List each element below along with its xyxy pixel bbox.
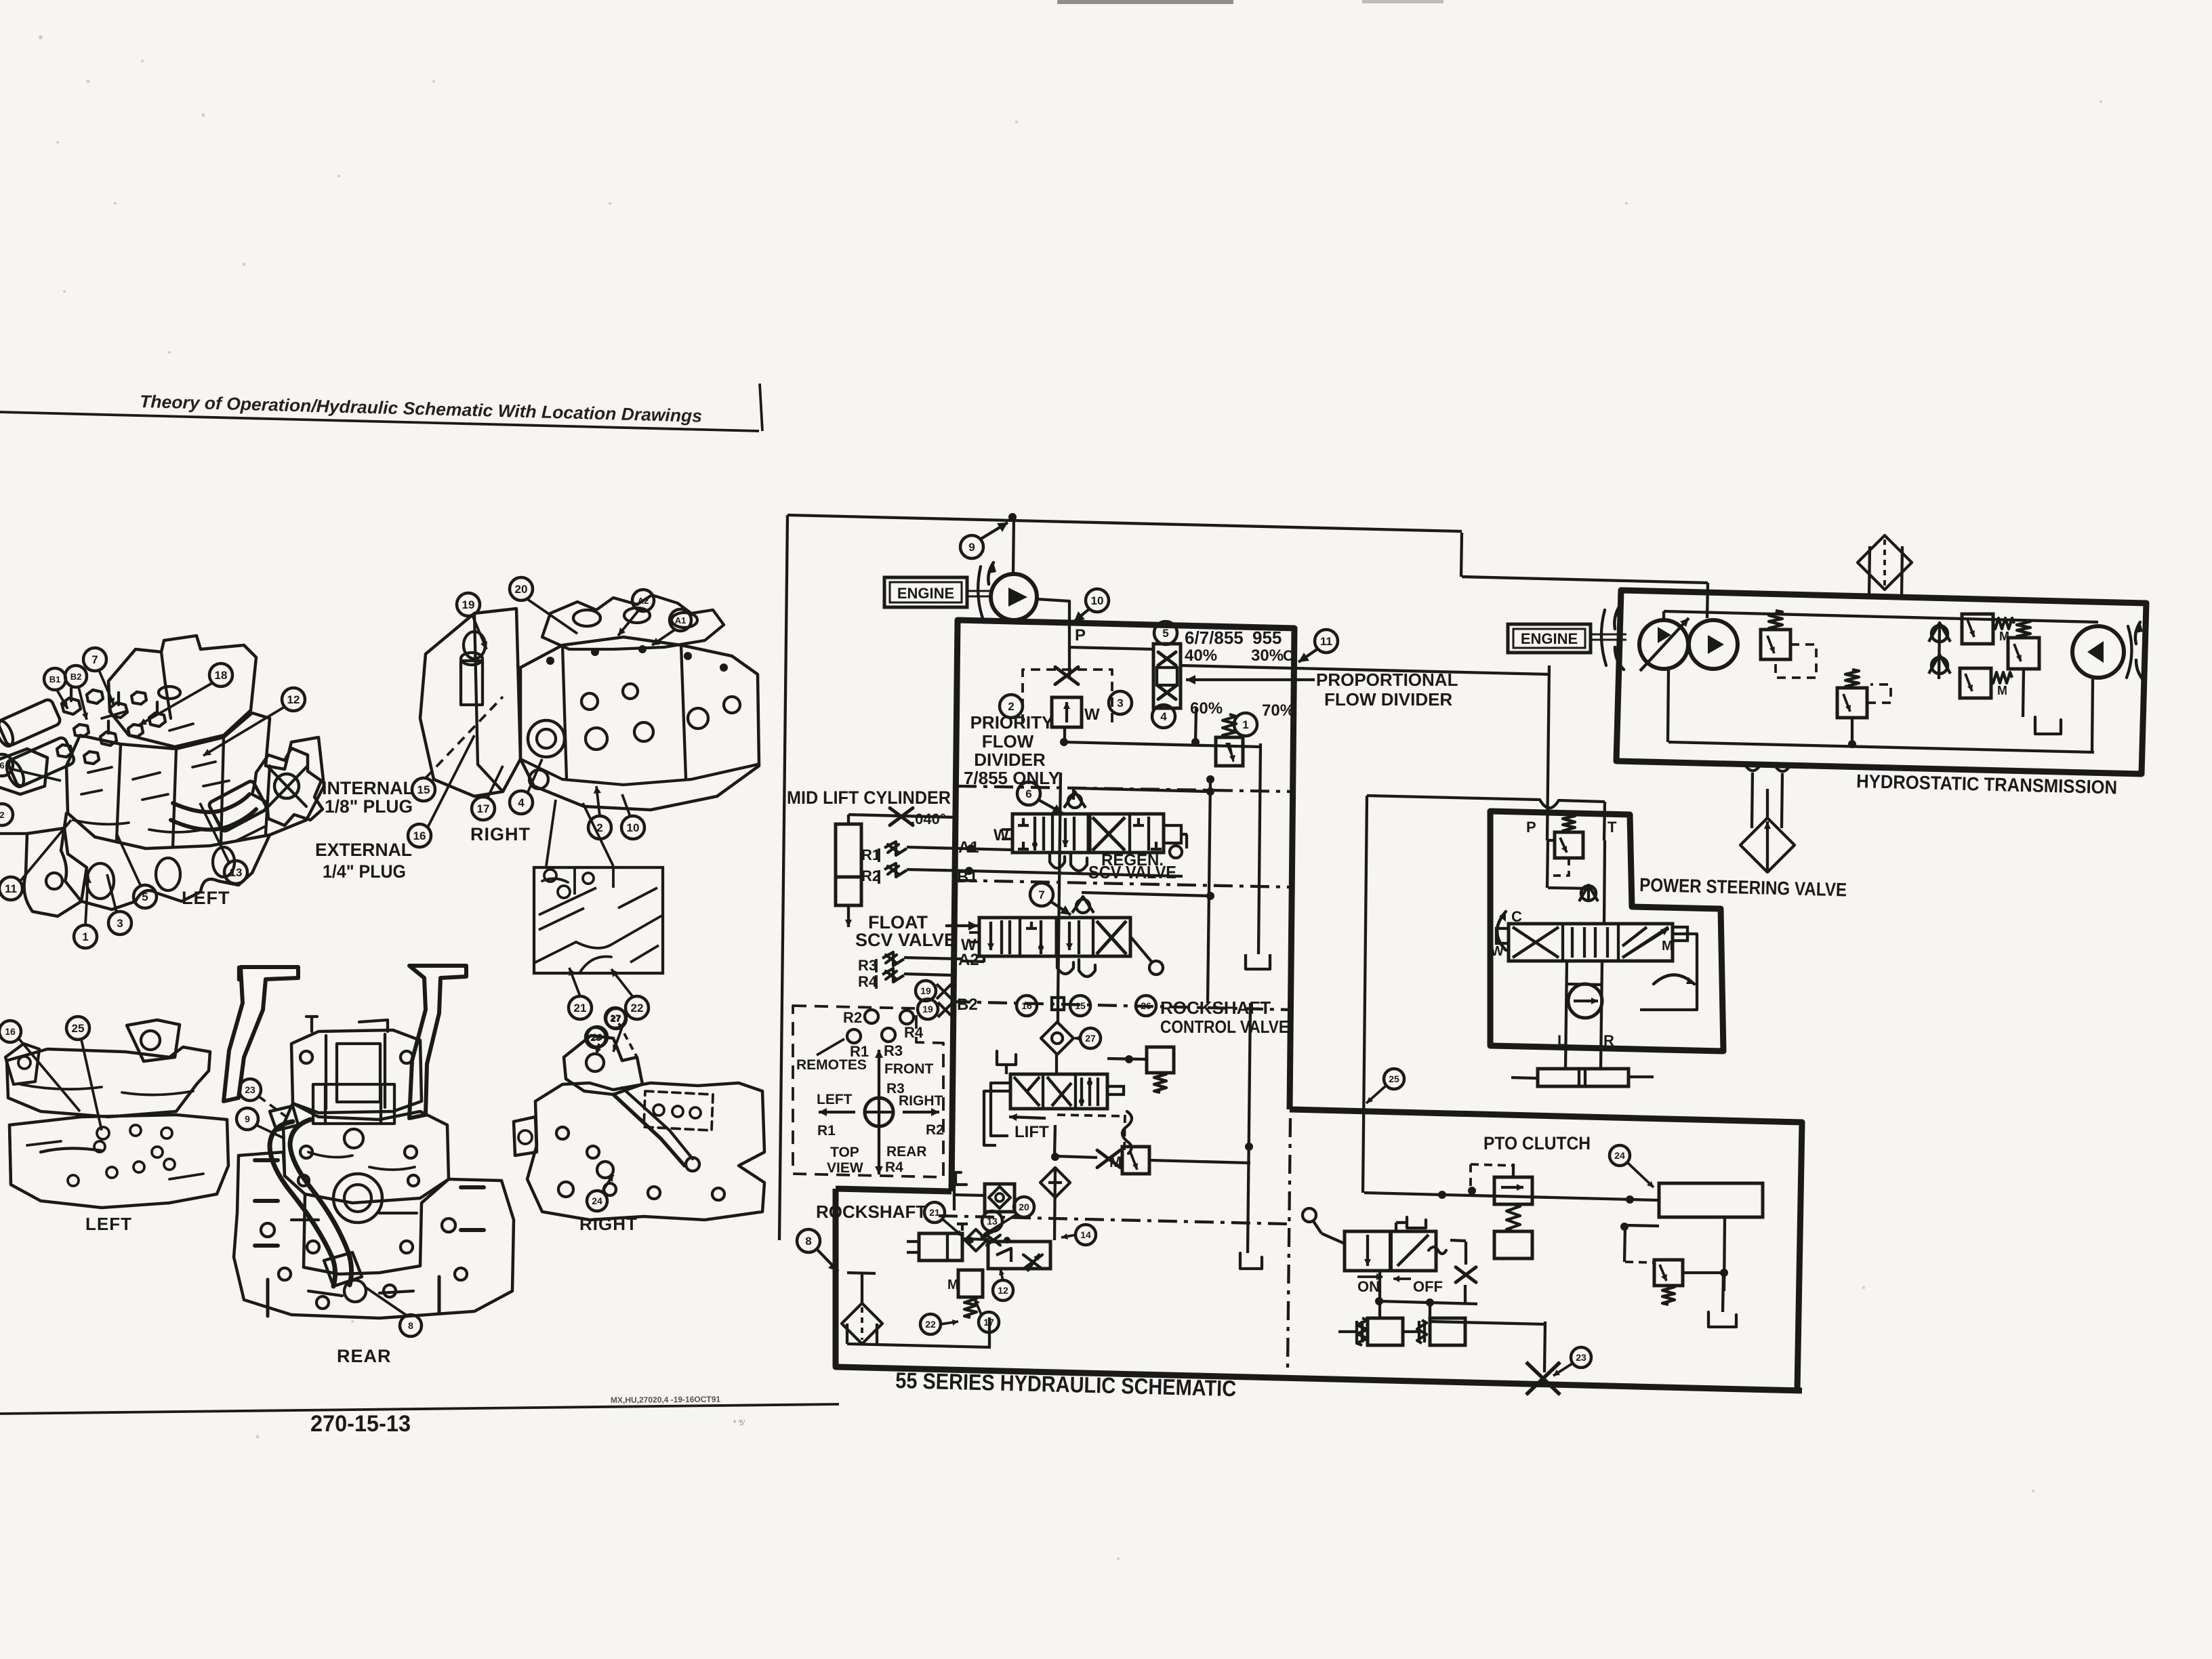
svg-text:2: 2 xyxy=(0,810,5,820)
steering cylinder xyxy=(1538,1069,1629,1086)
charge pump circle xyxy=(1689,620,1738,669)
check diamond on P line xyxy=(1041,1022,1073,1054)
bottom filter diamond xyxy=(1740,818,1795,872)
R1 check valve xyxy=(884,842,907,855)
section divider dash-dot y1800 (rockshaft) xyxy=(939,1216,1288,1224)
tank hook small left xyxy=(956,1172,966,1185)
svg-text:16: 16 xyxy=(5,1026,16,1037)
svg-text:DIVIDER: DIVIDER xyxy=(974,750,1046,770)
svg-text:1: 1 xyxy=(82,930,88,943)
svg-text:70%: 70% xyxy=(1262,701,1294,720)
steering motor circle xyxy=(1568,984,1602,1018)
callout 1 xyxy=(1234,713,1257,736)
svg-text:C: C xyxy=(1511,908,1522,925)
small box on divider xyxy=(1052,998,1064,1010)
svg-text:OFF: OFF xyxy=(1413,1278,1443,1295)
inset leader lines xyxy=(546,800,556,866)
regen valve section innards xyxy=(1022,818,1025,825)
svg-text:5: 5 xyxy=(142,890,148,903)
svg-text:1/4" PLUG: 1/4" PLUG xyxy=(323,861,406,882)
callout 7 + check xyxy=(1030,883,1053,906)
orifice on P line xyxy=(1055,667,1078,684)
priority flow divider valve xyxy=(1052,697,1082,727)
svg-text:CONTROL VALVE: CONTROL VALVE xyxy=(1160,1017,1289,1037)
bottom loop bumps + filter xyxy=(1744,764,1761,771)
callout 11 xyxy=(1315,630,1338,653)
relief valve 1 xyxy=(1216,737,1243,766)
LIFT label + arrow xyxy=(1009,1117,1046,1118)
svg-text:R3: R3 xyxy=(858,957,877,974)
callouts upper-left assembly xyxy=(44,668,66,690)
R4 line xyxy=(904,974,952,975)
tank below relief xyxy=(1246,954,1270,969)
svg-text:ENGINE: ENGINE xyxy=(897,585,954,602)
svg-text:20: 20 xyxy=(515,583,528,596)
callout 27 xyxy=(1080,1028,1101,1048)
svg-text:P: P xyxy=(1526,819,1536,836)
hi-pressure relief B xyxy=(1960,668,1991,698)
R3 line xyxy=(904,958,962,959)
svg-text:SCV VALVE: SCV VALVE xyxy=(1088,862,1176,882)
P bus through divider xyxy=(1057,1003,1059,1023)
solenoid box 2 xyxy=(1430,1318,1465,1345)
callout 8 xyxy=(797,1229,820,1252)
svg-text:P: P xyxy=(1075,626,1086,644)
svg-text:A1: A1 xyxy=(675,615,687,626)
tank hook left of lift valve xyxy=(997,1051,1016,1065)
svg-text:7: 7 xyxy=(91,653,98,666)
svg-text:LEFT: LEFT xyxy=(817,1092,853,1107)
svg-text:ON: ON xyxy=(1357,1278,1380,1295)
svg-text:M: M xyxy=(1109,1153,1122,1170)
svg-text:23: 23 xyxy=(245,1084,255,1095)
right return loop xyxy=(1640,934,1697,1010)
scanner top edge xyxy=(1057,0,1233,4)
svg-text:M: M xyxy=(947,1277,959,1292)
svg-text:PRIORITY: PRIORITY xyxy=(970,712,1054,733)
svg-text:MID LIFT CYLINDER: MID LIFT CYLINDER xyxy=(787,787,951,808)
svg-text:21: 21 xyxy=(574,1002,587,1015)
float valve lever xyxy=(1130,937,1152,962)
clutch cylinder rect xyxy=(1659,1183,1763,1217)
valve end stubs xyxy=(1496,928,1509,943)
svg-text:27: 27 xyxy=(611,1013,621,1024)
svg-text:EXTERNAL: EXTERNAL xyxy=(315,840,412,860)
svg-text:.040°: .040° xyxy=(911,811,946,827)
70% output down xyxy=(1195,708,1196,742)
svg-text:10: 10 xyxy=(627,821,640,834)
R2 line to B1 xyxy=(907,869,969,871)
svg-text:18: 18 xyxy=(215,669,228,682)
svg-text:REAR: REAR xyxy=(337,1346,392,1366)
pto main line xyxy=(1364,1193,1659,1200)
svg-text:R1: R1 xyxy=(861,846,880,863)
M relief valve xyxy=(1122,1147,1149,1174)
svg-text:13: 13 xyxy=(230,866,243,879)
hydrostatic thick box xyxy=(1616,590,2146,774)
svg-text:R: R xyxy=(1603,1032,1614,1049)
svg-text:5: 5 xyxy=(1162,627,1168,640)
svg-text:FLOW: FLOW xyxy=(982,731,1034,752)
PS check valve xyxy=(1581,886,1596,901)
40% output to power steering xyxy=(1181,665,1549,674)
pto 3way valve xyxy=(1345,1231,1436,1271)
svg-text:10: 10 xyxy=(1091,594,1104,607)
svg-text:6/7/855: 6/7/855 xyxy=(1185,628,1244,648)
remotes circles row2 xyxy=(847,1029,861,1043)
variable pump circle xyxy=(1639,620,1688,669)
relief output down to tank xyxy=(1258,743,1261,954)
main schematic thick border xyxy=(951,620,1294,1191)
A2 line from valve xyxy=(983,956,985,962)
svg-text:24: 24 xyxy=(592,1195,602,1206)
callout 6 + check xyxy=(1017,782,1040,805)
charge relief dashed pilot xyxy=(1776,644,1816,678)
svg-text:19: 19 xyxy=(922,1004,933,1015)
svg-text:REMOTES: REMOTES xyxy=(796,1057,867,1073)
lower distribution line xyxy=(1379,1301,1477,1304)
svg-text:VIEW: VIEW xyxy=(827,1160,863,1176)
svg-text:ROCKSHAFT: ROCKSHAFT xyxy=(816,1202,926,1222)
svg-text:955: 955 xyxy=(1252,628,1282,648)
hydro inner loop top xyxy=(1664,611,2098,622)
svg-text:PTO CLUTCH: PTO CLUTCH xyxy=(1483,1133,1591,1153)
callout 16 15 26 on divider xyxy=(1017,996,1037,1016)
engine box 2 xyxy=(1508,624,1591,653)
svg-text:16: 16 xyxy=(1021,1000,1032,1011)
svg-text:W: W xyxy=(1084,705,1100,724)
priority valve drop line xyxy=(1063,727,1066,743)
tank hook above valve xyxy=(1407,1217,1426,1228)
top filter diamond xyxy=(1858,535,1912,590)
svg-text:15: 15 xyxy=(1075,1000,1086,1011)
PTO left dash-dot boundary xyxy=(1288,1118,1290,1368)
tank gallery below regen xyxy=(1050,853,1065,868)
svg-text:R2: R2 xyxy=(926,1122,944,1138)
svg-text:RIGHT: RIGHT xyxy=(470,824,531,844)
svg-text:3: 3 xyxy=(1117,697,1123,710)
remotes crosshair xyxy=(878,1050,880,1098)
svg-text:ROCKSHAFT: ROCKSHAFT xyxy=(1160,998,1271,1018)
svg-text:1: 1 xyxy=(1242,718,1248,731)
solenoid box 1 xyxy=(1368,1318,1403,1345)
engine box 1 xyxy=(884,577,967,607)
float SCV valve block xyxy=(979,918,1130,956)
svg-text:14: 14 xyxy=(1080,1229,1091,1240)
motor shaft arcs xyxy=(2127,626,2132,678)
svg-text:R4: R4 xyxy=(885,1160,903,1175)
svg-text:A2: A2 xyxy=(638,596,649,606)
callout 19 x2 with X marks xyxy=(916,981,936,1001)
svg-text:25: 25 xyxy=(72,1022,85,1035)
svg-text:26: 26 xyxy=(1141,1000,1151,1011)
motor circle xyxy=(2072,626,2124,678)
svg-text:R2: R2 xyxy=(861,867,880,884)
svg-text:8: 8 xyxy=(408,1320,413,1331)
svg-text:20: 20 xyxy=(1019,1202,1029,1212)
regulator valve (two squares + spring) xyxy=(1494,1177,1532,1204)
hydro inner loop bottom xyxy=(1668,742,2094,752)
edge half callouts xyxy=(0,754,13,776)
svg-text:13: 13 xyxy=(987,1216,998,1227)
callouts lower-right xyxy=(587,1027,607,1047)
charge relief square xyxy=(1761,630,1790,659)
svg-text:9: 9 xyxy=(968,541,975,554)
svg-text:23: 23 xyxy=(1576,1352,1586,1363)
callout 21 xyxy=(924,1202,945,1223)
svg-text:T: T xyxy=(1607,819,1617,836)
power steering thick border xyxy=(1490,811,1723,1051)
R2 check valve xyxy=(884,863,907,877)
dashed pilot from lift valve xyxy=(1057,1115,1125,1116)
callout 2 xyxy=(1000,695,1023,718)
svg-text:INTERNAL: INTERNAL xyxy=(322,778,414,798)
valve riser xyxy=(1378,1271,1381,1301)
svg-text:30%: 30% xyxy=(1251,647,1284,665)
svg-text:4: 4 xyxy=(518,796,525,809)
header rule right tick xyxy=(760,384,762,431)
callout 25 xyxy=(1384,1069,1404,1089)
line to X port xyxy=(1429,1303,1431,1322)
relief top right of lift xyxy=(1147,1047,1174,1073)
callout 14 xyxy=(1076,1225,1096,1245)
rockshaft cylinder xyxy=(919,1233,962,1261)
relief drain to tank xyxy=(2023,669,2024,717)
engine1 rotation arcs xyxy=(978,567,983,618)
svg-text:W: W xyxy=(1491,944,1504,959)
float top bridge xyxy=(1082,893,1210,896)
svg-text:TOP: TOP xyxy=(830,1145,859,1160)
svg-text:RIGHT: RIGHT xyxy=(899,1093,943,1109)
section divider dash-dot y1150 xyxy=(958,786,1292,792)
steering valve block xyxy=(1509,924,1673,961)
svg-text:8: 8 xyxy=(805,1235,811,1248)
svg-text:LEFT: LEFT xyxy=(85,1214,132,1234)
B1 line right xyxy=(969,871,1183,876)
svg-text:7/855 ONLY: 7/855 ONLY xyxy=(964,768,1060,788)
cylinder rod arrow xyxy=(847,905,850,927)
svg-text:ENGINE: ENGINE xyxy=(1521,630,1578,647)
svg-text:17: 17 xyxy=(477,802,490,815)
svg-text:11: 11 xyxy=(5,882,17,895)
PS supply drop x2286 xyxy=(1547,665,1549,840)
callouts upper-right assembly xyxy=(457,593,480,616)
svg-text:SCV VALVE: SCV VALVE xyxy=(855,930,956,950)
engine2 shaft + arcs xyxy=(1591,634,1626,636)
orifice .040 xyxy=(890,808,913,825)
svg-text:6: 6 xyxy=(0,760,5,771)
svg-text:* '5': * '5' xyxy=(733,1419,745,1427)
callout 24 xyxy=(1610,1145,1630,1166)
callouts REAR xyxy=(239,1079,261,1101)
T drop xyxy=(1604,802,1605,840)
P bus continues through xyxy=(1058,773,1061,1003)
mid lift cylinder body xyxy=(836,824,861,877)
svg-text:4: 4 xyxy=(1160,710,1167,723)
callout 23 xyxy=(1571,1347,1591,1368)
regen top bridge line xyxy=(1073,788,1210,792)
section divider dash-dot y1297 xyxy=(958,880,1292,887)
svg-text:B2: B2 xyxy=(70,672,82,682)
svg-text:R2: R2 xyxy=(843,1009,862,1026)
remotes dashed box xyxy=(793,1006,943,1177)
svg-text:LIFT: LIFT xyxy=(1015,1123,1049,1141)
LIFT valve block xyxy=(1010,1074,1107,1109)
svg-text:R3: R3 xyxy=(884,1042,903,1059)
mid relief square xyxy=(1837,688,1867,718)
pump1 outlet line up xyxy=(1013,517,1014,574)
svg-text:22: 22 xyxy=(631,1002,644,1015)
svg-text:M: M xyxy=(1997,684,2007,697)
svg-text:270-15-13: 270-15-13 xyxy=(310,1411,411,1437)
svg-text:25: 25 xyxy=(1389,1073,1399,1084)
arrow from label to divider xyxy=(1186,678,1315,681)
svg-text:1/8" PLUG: 1/8" PLUG xyxy=(325,796,413,817)
svg-text:9: 9 xyxy=(245,1113,250,1124)
svg-text:3: 3 xyxy=(117,917,123,930)
lower valve box xyxy=(988,1242,1050,1269)
pto relief right xyxy=(1654,1260,1683,1286)
svg-text:40%: 40% xyxy=(1185,647,1217,665)
svg-text:15: 15 xyxy=(417,783,430,796)
svg-text:24: 24 xyxy=(1614,1150,1625,1161)
svg-text:12: 12 xyxy=(998,1285,1008,1296)
lift valve left feed lines xyxy=(991,1083,1010,1136)
check valve box left xyxy=(985,1184,1015,1212)
svg-text:11: 11 xyxy=(1320,635,1332,648)
svg-text:19: 19 xyxy=(920,985,931,996)
priority flow divider dashed pilot box xyxy=(1023,670,1112,724)
T line down xyxy=(1604,840,1605,924)
R1 line to A1 xyxy=(907,847,1012,850)
svg-text:R4: R4 xyxy=(904,1024,924,1041)
svg-text:LEFT: LEFT xyxy=(182,888,230,908)
P line to lift valve xyxy=(1055,1054,1058,1074)
PTO clutch thick border xyxy=(1290,1109,1802,1391)
callout 3 xyxy=(1109,691,1132,714)
callout 9 xyxy=(960,535,983,558)
svg-text:FRONT: FRONT xyxy=(884,1061,933,1077)
P line down from pump xyxy=(1037,599,1069,678)
pto valve handle xyxy=(1322,1233,1345,1244)
svg-text:RIGHT: RIGHT xyxy=(579,1214,638,1234)
svg-text:2: 2 xyxy=(1008,700,1014,713)
svg-text:B1: B1 xyxy=(49,674,61,684)
rockshaft right drain to tank xyxy=(1240,1253,1262,1269)
orifice on branch xyxy=(1456,1267,1476,1283)
cylinder top line xyxy=(847,815,850,824)
line to relief xyxy=(1064,742,1261,747)
PS relief piping xyxy=(1547,840,1548,888)
hi-pressure relief A xyxy=(1962,614,1993,644)
proportional flow divider body xyxy=(1153,644,1181,708)
poppet cluster xyxy=(961,1224,964,1231)
svg-text:12: 12 xyxy=(287,693,300,706)
inset detail box xyxy=(534,867,663,973)
svg-text:16: 16 xyxy=(413,829,426,842)
svg-text:C: C xyxy=(1283,647,1294,664)
callout 5 xyxy=(1154,621,1177,644)
svg-text:A1: A1 xyxy=(958,838,979,857)
lift valve right stub xyxy=(1107,1086,1124,1094)
callout 4 xyxy=(1152,705,1175,728)
pto tank xyxy=(1708,1312,1736,1327)
svg-text:L: L xyxy=(1557,1032,1566,1049)
P drop to rockshaft section xyxy=(1054,1168,1055,1240)
callout 17 22 xyxy=(979,1312,999,1332)
regen SCV valve block xyxy=(1012,814,1164,853)
right return bus xyxy=(1208,779,1210,1003)
PTO supply riser x2012 xyxy=(1363,796,1367,1193)
svg-text:26: 26 xyxy=(592,1031,602,1042)
svg-text:7: 7 xyxy=(1038,888,1044,901)
squiggle drop xyxy=(1122,1111,1132,1153)
tank hook hydro xyxy=(2035,717,2061,734)
rockshaft box thick border xyxy=(836,1189,951,1191)
pump 1 circle xyxy=(991,574,1037,620)
callouts below inset xyxy=(569,996,592,1019)
header rule xyxy=(0,412,759,431)
svg-text:R1: R1 xyxy=(817,1123,836,1139)
svg-text:27: 27 xyxy=(1085,1033,1096,1044)
motor connection lines xyxy=(1565,961,1567,1069)
link line y1174 to T xyxy=(1367,796,1540,800)
svg-text:B2: B2 xyxy=(957,996,978,1014)
prop divider inlet from P xyxy=(1069,647,1153,649)
callout 20 13 xyxy=(1014,1197,1034,1217)
third relief xyxy=(2008,638,2039,669)
svg-text:21: 21 xyxy=(929,1207,940,1218)
svg-text:6: 6 xyxy=(1025,787,1031,800)
svg-text:REAR: REAR xyxy=(886,1144,927,1160)
M relief lower xyxy=(958,1270,983,1297)
pto clutch drop from clutch xyxy=(1724,1217,1725,1291)
callout 12 xyxy=(993,1280,1013,1300)
svg-text:FLOW DIVIDER: FLOW DIVIDER xyxy=(1324,689,1452,710)
section divider dash-dot y1480 xyxy=(951,1002,1292,1010)
hydro top filter loop xyxy=(1869,546,1870,596)
PS relief valve xyxy=(1555,832,1583,858)
svg-text:22: 22 xyxy=(925,1319,936,1330)
orifice + M relief mid xyxy=(1097,1150,1120,1168)
rockshaft filter xyxy=(842,1303,882,1344)
relief drain right xyxy=(1149,1160,1250,1163)
X closed port at bottom border xyxy=(1526,1362,1560,1395)
footer rule xyxy=(0,1404,839,1414)
tank gallery below float xyxy=(1057,958,1073,974)
engine1 shaft xyxy=(967,590,993,592)
svg-text:MX,HU,27020,4 -19-16OCT91: MX,HU,27020,4 -19-16OCT91 xyxy=(611,1395,721,1405)
check diamond 2 xyxy=(1040,1168,1070,1197)
check valves pair xyxy=(1931,626,1948,642)
svg-text:R4: R4 xyxy=(858,973,878,990)
bottom tank line xyxy=(847,1344,991,1347)
regen pilot box right xyxy=(1164,825,1181,843)
callouts lower-left xyxy=(0,1021,21,1042)
outer thin boundary (left schematic) xyxy=(787,515,1462,531)
callout 10 xyxy=(1086,589,1109,612)
svg-text:19: 19 xyxy=(462,598,475,611)
